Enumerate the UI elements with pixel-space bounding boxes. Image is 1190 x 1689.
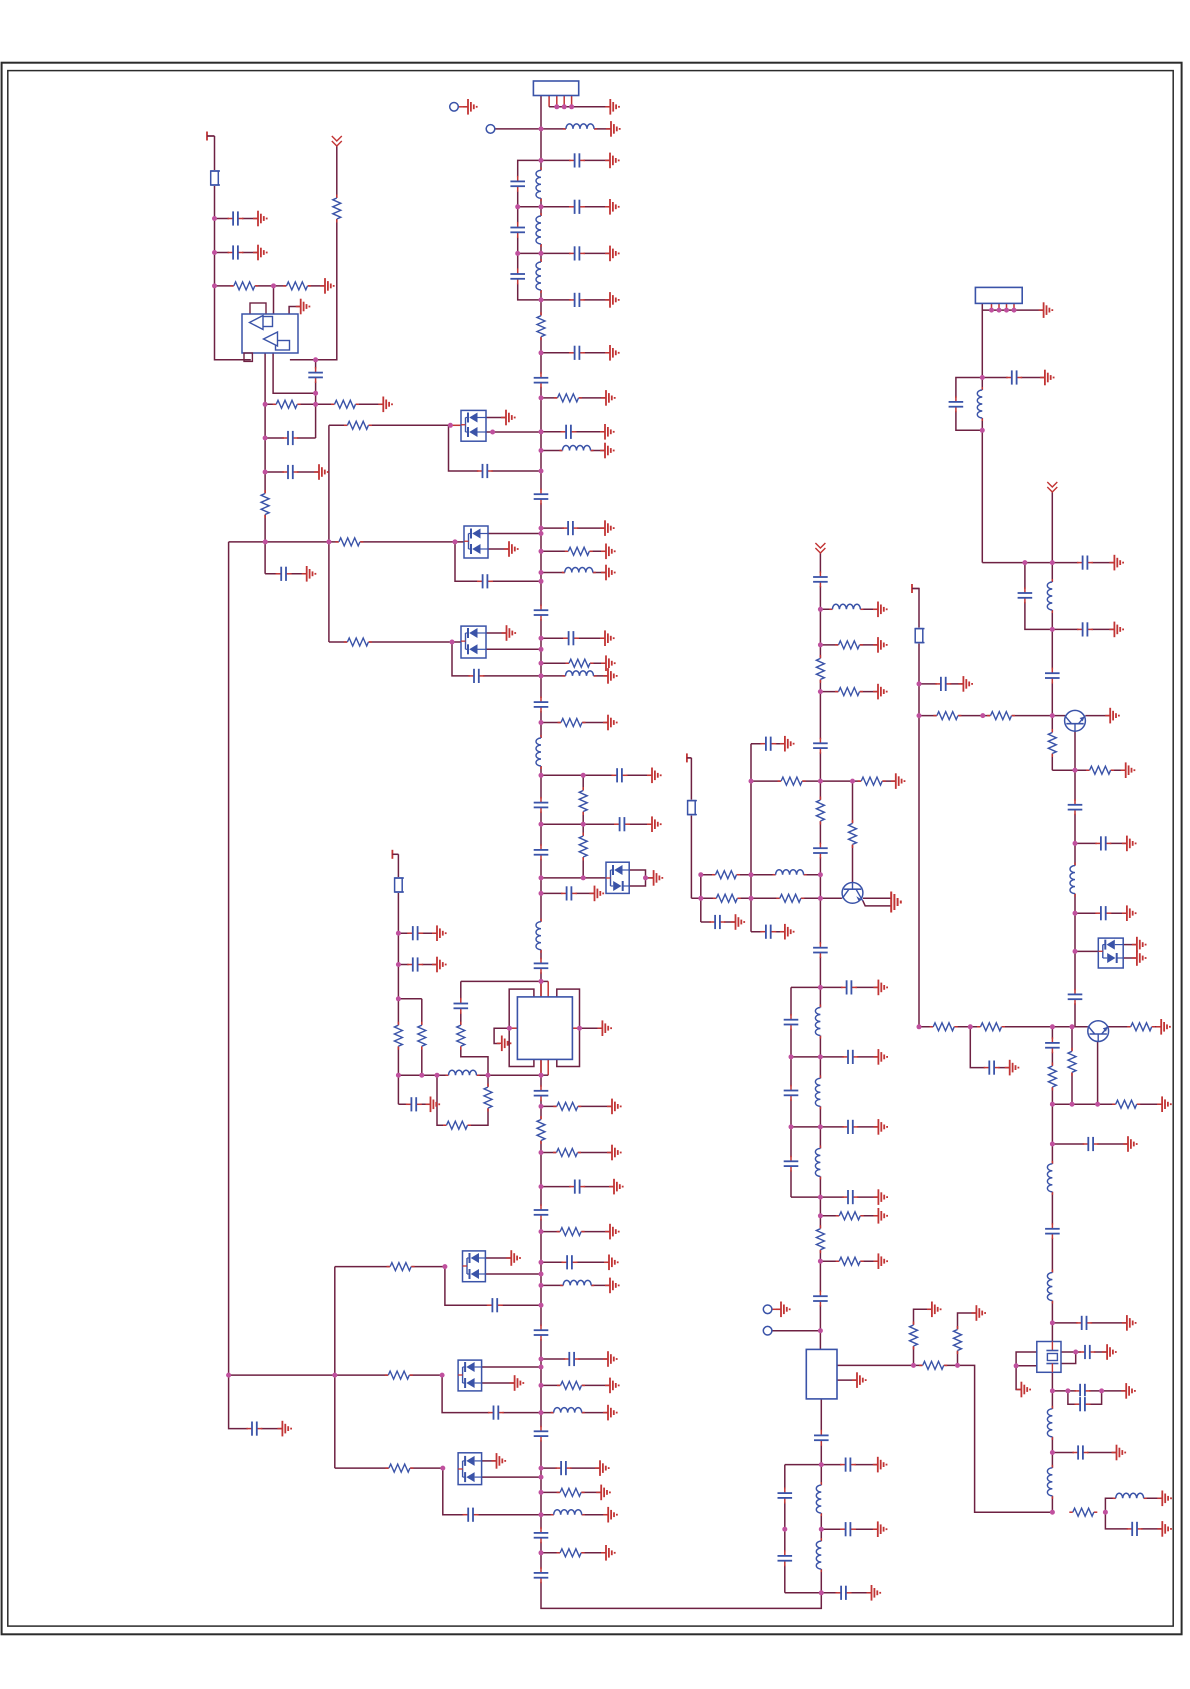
- ground: [1156, 1019, 1170, 1035]
- junction node: [554, 104, 559, 109]
- junction node: [997, 308, 1002, 313]
- inductor L24: [1047, 1161, 1058, 1195]
- resistor R20: [385, 1463, 413, 1473]
- terminal T4: [912, 584, 919, 593]
- wire row 450: [541, 450, 605, 452]
- wire row 1106: [541, 1105, 612, 1107]
- resistor R28: [393, 1022, 403, 1050]
- ground: [504, 541, 518, 557]
- inductor L12: [551, 1509, 585, 1520]
- junction node: [818, 1328, 823, 1333]
- junction node: [789, 1054, 794, 1059]
- ground: [432, 925, 446, 941]
- junction node: [819, 1527, 824, 1532]
- junction node: [539, 1357, 544, 1362]
- wire row 1215: [820, 1215, 878, 1217]
- ground: [873, 684, 887, 700]
- junction node: [442, 1264, 447, 1269]
- ground: [1039, 302, 1053, 318]
- wire D1 top to ground: [486, 417, 506, 419]
- capacitor C55: [812, 942, 828, 958]
- inductor L15: [773, 869, 807, 880]
- resistor R16: [344, 637, 372, 647]
- ground: [971, 1305, 985, 1321]
- wire row 1492: [541, 1491, 601, 1493]
- junction node: [486, 1073, 491, 1078]
- resistor R9: [283, 281, 311, 291]
- ground: [604, 1255, 618, 1271]
- dual diode D5: [458, 1360, 482, 1391]
- ground: [873, 1119, 887, 1135]
- capacitor C42: [533, 1085, 549, 1101]
- wire row 404: [265, 403, 383, 405]
- wire antenna branch: [290, 146, 337, 360]
- wire row 638: [541, 637, 605, 639]
- ground: [605, 345, 619, 361]
- junction node: [539, 661, 544, 666]
- resistor R7: [578, 833, 588, 861]
- wire riser x335: [334, 1267, 336, 1469]
- resistor R17: [387, 1262, 415, 1272]
- resistor R23: [553, 1101, 581, 1111]
- wire J1 pins to ground: [549, 106, 610, 108]
- wire to D1: [329, 424, 449, 426]
- junction node: [850, 779, 855, 784]
- ground: [780, 924, 794, 940]
- junction node: [263, 539, 268, 544]
- wire row 609: [820, 608, 878, 610]
- capacitor C34: [564, 1351, 580, 1367]
- junction node: [1073, 911, 1078, 916]
- resistor R37: [815, 797, 825, 825]
- ground: [606, 121, 620, 137]
- power arrow VCC1: [332, 136, 342, 146]
- junction node: [818, 1259, 823, 1264]
- ground: [1121, 1383, 1135, 1399]
- ground: [1109, 622, 1123, 638]
- capacitor C30: [276, 566, 292, 582]
- capacitor C64: [813, 1430, 829, 1446]
- wire U2 right pin to ground: [580, 1027, 603, 1029]
- wire Q1 collector riser: [852, 781, 854, 883]
- wire row 1323: [1052, 1322, 1127, 1324]
- junction node: [789, 1124, 794, 1129]
- junction node: [577, 1026, 582, 1031]
- wire row 1197: [791, 1196, 878, 1198]
- resistor R39: [712, 870, 740, 880]
- junction node: [539, 526, 544, 531]
- capacitor C85: [1076, 1315, 1092, 1331]
- wire row 438: [265, 437, 316, 439]
- ground: [873, 1521, 887, 1537]
- ground: [873, 1189, 887, 1205]
- junction node: [1103, 1510, 1108, 1515]
- junction node: [435, 1073, 440, 1078]
- wire cap stub 922: [701, 921, 736, 923]
- wire left riser x329: [328, 425, 330, 642]
- capacitor C57: [783, 1014, 799, 1030]
- junction node: [263, 402, 268, 407]
- wire row 663: [541, 662, 606, 664]
- wire X1 left pin2: [1016, 1365, 1037, 1367]
- capacitor C82: [1044, 1037, 1060, 1053]
- junction node: [450, 640, 455, 645]
- wire x265 riser: [264, 353, 266, 574]
- capacitor C63: [812, 1291, 828, 1307]
- junction node: [1022, 560, 1027, 565]
- wire R-chain A: [914, 1309, 932, 1365]
- junction node: [396, 962, 401, 967]
- ground: [600, 443, 614, 459]
- wire row 875: [701, 874, 821, 876]
- capacitor C25: [228, 211, 244, 227]
- capacitor C60: [842, 1119, 858, 1135]
- wire Q3 collector net: [1108, 1026, 1161, 1028]
- ground: [873, 1457, 887, 1473]
- wire row 1231: [541, 1231, 610, 1233]
- junction node: [1014, 1363, 1019, 1368]
- ground: [607, 1145, 621, 1161]
- junction node: [453, 539, 458, 544]
- capacitor C11: [477, 463, 493, 479]
- resistor R4: [566, 658, 594, 668]
- wire row 528: [541, 527, 605, 529]
- junction node: [980, 428, 985, 433]
- wire D3 bottom to bus: [486, 648, 541, 650]
- ground: [302, 566, 316, 582]
- junction node: [539, 251, 544, 256]
- ground: [1109, 555, 1123, 571]
- ground: [501, 410, 515, 426]
- resistor R47: [953, 1326, 963, 1354]
- capacitor C13: [563, 520, 579, 536]
- resistor Rloop1: [443, 1120, 471, 1130]
- junction node: [917, 1024, 922, 1029]
- junction node: [1050, 1510, 1055, 1515]
- capacitor C2: [510, 176, 526, 192]
- capacitor C73: [1017, 587, 1033, 603]
- ground: [502, 625, 516, 641]
- wire row 898 base: [691, 897, 842, 899]
- resistor R52: [930, 1022, 958, 1032]
- wire T1 lead: [207, 135, 215, 137]
- wire riser x583: [582, 775, 584, 878]
- junction node: [539, 297, 544, 302]
- inductor L23: [1070, 863, 1081, 897]
- capacitor C51: [760, 736, 776, 752]
- capacitor C43: [569, 1179, 585, 1195]
- fuse F2: [392, 877, 404, 893]
- junction node: [515, 251, 520, 256]
- resistor R42: [836, 1211, 864, 1221]
- wire X1 left loop: [1016, 1352, 1037, 1390]
- junction node: [819, 1590, 824, 1595]
- wire right feed x982: [981, 303, 983, 562]
- inductor L18: [815, 1145, 826, 1179]
- wire row 775: [541, 774, 652, 776]
- junction node: [1073, 949, 1078, 954]
- capacitor C83: [1083, 1136, 1099, 1152]
- ground: [601, 544, 615, 560]
- junction node: [539, 1475, 544, 1480]
- wire row 563: [982, 562, 1114, 564]
- resistor R26: [557, 1227, 585, 1237]
- wire long left bus x228: [229, 542, 283, 1429]
- capacitor C24: [533, 958, 549, 974]
- inductor L27: [1047, 1465, 1058, 1499]
- ground: [609, 1179, 623, 1195]
- junction node: [539, 1073, 544, 1078]
- wire D4 bottom to bus: [485, 1273, 541, 1275]
- wire row 1267: [335, 1266, 445, 1268]
- resistor R56: [1067, 1048, 1077, 1076]
- wire row 218: [215, 218, 259, 220]
- junction node: [989, 308, 994, 313]
- resistor R5: [558, 718, 586, 728]
- wire row 1465: [785, 1464, 878, 1466]
- capacitor C84: [1044, 1223, 1060, 1239]
- wire D8 bottom to ground: [1123, 957, 1137, 959]
- capacitor C75: [1044, 668, 1060, 684]
- ground: [1016, 1382, 1030, 1398]
- junction node: [448, 423, 453, 428]
- wire connector J1 pin 2: [548, 96, 550, 107]
- junction node: [396, 996, 401, 1001]
- ground: [603, 1507, 617, 1523]
- junction node: [326, 539, 331, 544]
- opto IC U1: [242, 303, 298, 361]
- ground: [601, 565, 615, 581]
- wire to D8: [1075, 950, 1098, 952]
- inductor L28: [1113, 1493, 1147, 1504]
- wire D6 bypass cap: [443, 1468, 541, 1515]
- wire connector J1 pin 5: [571, 96, 573, 107]
- junction node: [539, 1466, 544, 1471]
- terminal T2: [392, 850, 398, 859]
- junction node: [539, 1383, 544, 1388]
- connector U-J1: [533, 81, 578, 96]
- inductor L17: [815, 1075, 826, 1109]
- wire cap stub 1068: [970, 1027, 1009, 1068]
- junction node: [539, 1303, 544, 1308]
- wire RL loop: [437, 1075, 488, 1125]
- junction node: [539, 448, 544, 453]
- junction node: [539, 1550, 544, 1555]
- wire row 377: [982, 377, 1045, 379]
- resistor R54: [1127, 1022, 1155, 1032]
- capacitor C46: [407, 925, 423, 941]
- wire row 572: [541, 572, 606, 574]
- inductor L8: [536, 735, 547, 769]
- junction node: [539, 1184, 544, 1189]
- ground: [1005, 1060, 1019, 1076]
- ground: [867, 1585, 881, 1601]
- capacitor C4: [510, 222, 526, 238]
- ground: [603, 668, 617, 684]
- capacitor C29: [282, 464, 298, 480]
- ground: [776, 1302, 790, 1318]
- fuse F1: [209, 170, 221, 186]
- junction node: [539, 1260, 544, 1265]
- junction node: [1073, 768, 1078, 773]
- wire D1 bypass cap: [449, 425, 542, 471]
- wire D6 top to ground: [482, 1460, 497, 1462]
- wire row 551: [541, 550, 606, 552]
- wire row 1262: [541, 1261, 609, 1263]
- capacitor C14: [477, 573, 493, 589]
- junction node: [539, 1365, 544, 1370]
- wire Q2 collector to ground: [1085, 715, 1110, 717]
- capacitor C41: [246, 1421, 262, 1437]
- junction node: [539, 126, 544, 131]
- wire terminal lead: [772, 1308, 781, 1310]
- resistor R50: [1047, 729, 1057, 757]
- wire left chain x214: [215, 136, 251, 360]
- inductor L25: [1047, 1270, 1058, 1304]
- wire D8 top to ground: [1123, 944, 1137, 946]
- wire row 824: [541, 823, 652, 825]
- junction node: [539, 549, 544, 554]
- junction node: [1050, 1388, 1055, 1393]
- wire row 676: [541, 675, 608, 677]
- wire row 770: [1052, 769, 1125, 771]
- capacitor C27: [308, 367, 324, 383]
- junction node: [818, 985, 823, 990]
- wire net row 542: [229, 541, 464, 543]
- junction node: [968, 1024, 973, 1029]
- junction node: [917, 713, 922, 718]
- wire U3 out net: [837, 1365, 1052, 1512]
- resistor R11: [273, 399, 301, 409]
- inductor L7: [563, 670, 597, 681]
- resistor R32: [835, 640, 863, 650]
- capacitor C23: [561, 885, 577, 901]
- capacitor C36: [533, 1426, 549, 1442]
- resistor R6: [578, 787, 588, 815]
- resistor R18: [385, 1370, 413, 1380]
- resistor R48: [933, 711, 961, 721]
- wire row 1126: [791, 1126, 878, 1128]
- wire U1 top pin: [273, 286, 275, 314]
- ground: [647, 768, 661, 784]
- wire center bus x820: [819, 553, 821, 1349]
- resistor R12: [331, 399, 359, 409]
- wire row 1593: [785, 1592, 872, 1594]
- wire row 432: [541, 431, 605, 433]
- inductor L14: [829, 604, 863, 615]
- wire row 722: [541, 722, 608, 724]
- resistor R34: [835, 687, 863, 697]
- IC U3: [806, 1349, 837, 1399]
- junction node: [396, 1073, 401, 1078]
- junction node: [271, 283, 276, 288]
- capacitor C71: [948, 396, 964, 412]
- wire connector J2 pin 4: [1006, 303, 1008, 310]
- ground: [277, 1421, 291, 1437]
- capacitor C49: [812, 571, 828, 587]
- wire terminal to bus: [495, 128, 541, 130]
- wire row 987: [791, 986, 878, 988]
- dual diode D1: [461, 410, 486, 441]
- capacitor C65: [840, 1457, 856, 1473]
- junction node: [539, 395, 544, 400]
- capacitor C7: [569, 292, 585, 308]
- capacitor C76: [935, 676, 951, 692]
- inductor L10: [560, 1280, 594, 1291]
- resistor R40: [713, 893, 741, 903]
- junction node: [749, 779, 754, 784]
- ground: [780, 736, 794, 752]
- transistor Q1: [842, 883, 863, 904]
- resistor R46: [919, 1360, 947, 1370]
- capacitor C17: [468, 668, 484, 684]
- wire U1 gnd stub: [289, 307, 301, 315]
- capacitor C66: [777, 1488, 793, 1504]
- capacitor C72: [1077, 555, 1093, 571]
- ground: [600, 520, 614, 536]
- capacitor C48: [406, 1096, 422, 1112]
- ground: [595, 1460, 609, 1476]
- capacitor C38: [463, 1507, 479, 1523]
- wire row 913: [1075, 912, 1127, 914]
- capacitor C69: [836, 1585, 852, 1601]
- junction node: [1050, 560, 1055, 565]
- ground: [600, 630, 614, 646]
- ground: [1123, 1136, 1137, 1152]
- resistor R57: [1112, 1099, 1140, 1109]
- junction node: [440, 1466, 445, 1471]
- capacitor C74: [1077, 621, 1093, 637]
- capacitor C9: [533, 372, 549, 388]
- wire D3 bypass cap: [452, 642, 541, 676]
- capacitor C37: [556, 1460, 572, 1476]
- resistor R3: [565, 546, 593, 556]
- capacitor C5: [569, 245, 585, 261]
- wire row 300: [541, 299, 610, 301]
- ground: [463, 99, 477, 115]
- wire x315 riser: [315, 360, 317, 438]
- capacitor C90: [1127, 1521, 1143, 1537]
- junction node: [1004, 308, 1009, 313]
- wire output forks: [1105, 1498, 1162, 1529]
- junction node: [1012, 308, 1017, 313]
- resistor R44: [836, 1256, 864, 1266]
- resistor R21: [557, 1487, 585, 1497]
- wire connector J1 pin 4: [563, 96, 565, 107]
- wire T2 lead: [392, 853, 398, 855]
- junction node: [539, 1490, 544, 1495]
- junction node: [1095, 1102, 1100, 1107]
- inductor L13: [446, 1070, 480, 1081]
- wire row 1104 left: [398, 1103, 430, 1105]
- junction node: [507, 1026, 512, 1031]
- junction node: [490, 430, 495, 435]
- inductor L16: [815, 1005, 826, 1039]
- transistor Q2: [1065, 710, 1086, 731]
- capacitor C81: [984, 1060, 1000, 1076]
- wire row 1552: [541, 1552, 606, 1554]
- ground: [601, 655, 615, 671]
- capacitor C18: [533, 697, 549, 713]
- junction node: [562, 104, 567, 109]
- resistor R29: [417, 1022, 427, 1050]
- inductor L1: [563, 123, 597, 134]
- ground: [649, 870, 663, 886]
- resistor R22: [557, 1548, 585, 1558]
- resistor R43: [815, 1225, 825, 1253]
- capacitor C8: [569, 345, 585, 361]
- junction node: [440, 1373, 445, 1378]
